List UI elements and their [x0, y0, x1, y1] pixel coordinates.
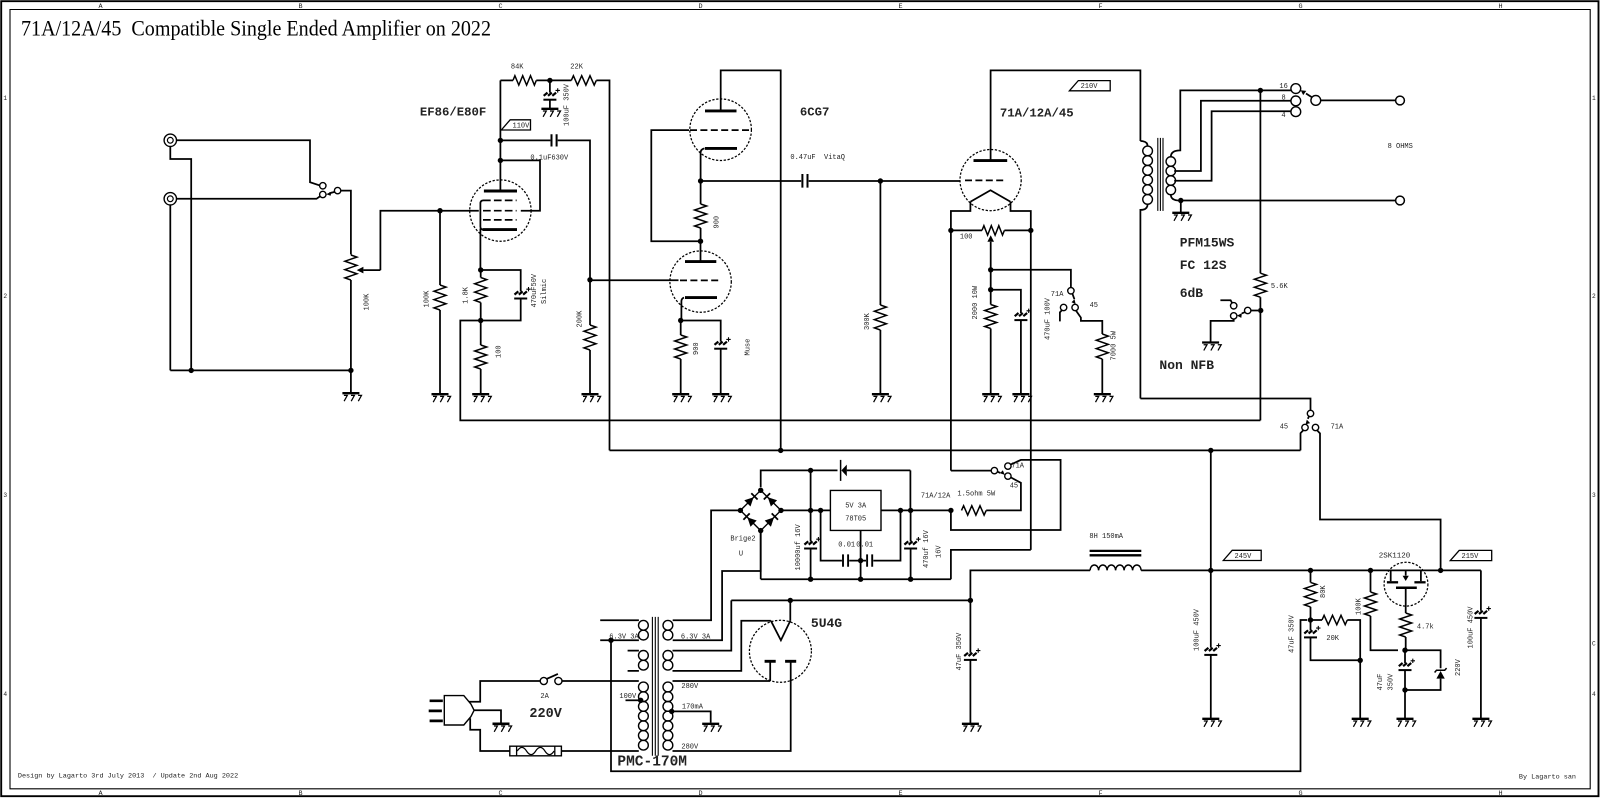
wire R17 lead	[1405, 637, 1407, 650]
T1 primary winding	[639, 682, 649, 750]
wire NFB drop	[1259, 90, 1261, 273]
svg-text:0.01: 0.01	[856, 541, 873, 549]
svg-text:H: H	[1499, 3, 1503, 11]
wire J1 tip to switch	[177, 140, 320, 185]
wire C3 top	[549, 80, 551, 92]
wire R10 leads	[990, 270, 992, 394]
wire SW5 71A to 215V	[1317, 430, 1441, 570]
wire J2 tip to switch	[177, 196, 320, 198]
V2a grid loop wire	[651, 130, 700, 241]
wire C9-C10	[849, 560, 866, 562]
node V2a cathode out	[698, 178, 703, 183]
svg-text:1.5ohm 5W: 1.5ohm 5W	[957, 490, 996, 498]
svg-text:470uF50V: 470uF50V	[531, 273, 539, 307]
node grid71A/300K	[878, 178, 883, 183]
wire C5 top	[681, 321, 721, 342]
V4 filament	[771, 621, 790, 641]
fuse F1 element	[517, 747, 554, 754]
node source divider	[1402, 648, 1407, 653]
svg-text:900: 900	[693, 342, 701, 355]
svg-text:78T05: 78T05	[845, 516, 866, 524]
wire C6 to 71A grid	[809, 180, 960, 182]
voltage flag 110V	[501, 120, 530, 130]
svg-text:350V: 350V	[1387, 673, 1395, 691]
ruler numbers right	[1592, 95, 1596, 698]
wire grid lead V2 lower	[590, 279, 679, 281]
switch SW2 common	[1068, 288, 1074, 294]
capacitor C5 Muse	[714, 337, 731, 349]
capacitor C8 10000uf 16V	[804, 537, 821, 549]
wire R7 leads	[680, 321, 682, 394]
svg-text:4: 4	[1592, 691, 1596, 698]
OPT core	[1157, 138, 1159, 211]
svg-text:280V: 280V	[681, 683, 699, 691]
wire 6.3V left top stub	[600, 619, 639, 621]
wire C8 bottom	[810, 549, 812, 580]
choke L1 8H 150mA	[1090, 565, 1141, 570]
wire C7 bottom	[1020, 320, 1022, 394]
V3 plate bar	[974, 159, 1008, 162]
svg-text:110V: 110V	[513, 122, 531, 130]
wire C15 leads	[1404, 650, 1406, 690]
wire R4-R5	[536, 79, 571, 81]
zener D2 220V	[1436, 671, 1444, 679]
wire SW3 to terminal	[1321, 99, 1396, 101]
bridge diode top-right	[768, 497, 777, 506]
capacitor C7 470uF 100V	[1014, 309, 1031, 321]
node R2/C2 junction	[478, 318, 483, 323]
ground C16	[1472, 719, 1491, 727]
svg-text:3: 3	[1592, 492, 1596, 499]
ground HV center tap	[702, 724, 721, 732]
svg-text:71A/12A: 71A/12A	[921, 492, 951, 500]
wire VR1 wiper to EF86 grid	[380, 211, 478, 270]
V2b plate bar	[685, 260, 716, 263]
wire SW4 to ground	[1211, 319, 1234, 342]
wire VR2 leads	[951, 229, 1031, 231]
svg-text:D: D	[699, 790, 703, 798]
wire SW4 common	[1251, 310, 1258, 312]
node bias mid	[988, 287, 993, 292]
capacitor C4 0.1uF630V	[552, 134, 557, 146]
wire R15 leads	[1311, 620, 1361, 660]
svg-text:210V: 210V	[1081, 83, 1099, 91]
wire 5V left stubs	[628, 651, 639, 671]
node bridge left	[738, 508, 743, 513]
svg-text:F: F	[1099, 3, 1103, 11]
selector SW3 common	[1311, 96, 1321, 106]
wire R9 leads	[879, 181, 881, 394]
svg-text:4.7k: 4.7k	[1417, 624, 1434, 632]
node reg in a	[808, 508, 813, 513]
node 245V	[1208, 568, 1213, 573]
ground C3	[541, 109, 560, 117]
SW2 arm	[1072, 294, 1074, 300]
svg-text:2SK1120: 2SK1120	[1379, 553, 1411, 561]
V4 plate1 stem	[769, 661, 771, 681]
resistor R8 900 upper cathode	[695, 204, 707, 228]
svg-text:Design by Lagarto 3rd July 201: Design by Lagarto 3rd July 2013 / Update…	[18, 773, 238, 781]
wire choke to MOSFET line	[1141, 569, 1481, 571]
OPT primary coil	[1143, 146, 1153, 204]
svg-text:100: 100	[960, 234, 973, 242]
tap circle 16	[1291, 84, 1301, 94]
SW2 open stub	[1060, 310, 1062, 321]
wire R4 left lead	[500, 79, 513, 81]
resistor R3 100	[475, 345, 487, 369]
V2a cathode bar	[705, 147, 737, 150]
node bias top	[988, 267, 993, 272]
V3 filament	[970, 190, 1010, 202]
capacitor C11 470uf 16V	[904, 537, 921, 549]
V3 filament right leg	[1011, 202, 1031, 231]
switch SW4 contact gnd	[1231, 313, 1237, 319]
svg-text:20K: 20K	[1326, 635, 1339, 643]
switch SW5 common top	[1307, 410, 1313, 416]
switch SW4 contact open	[1231, 303, 1237, 309]
AC plug prongs	[429, 701, 443, 721]
resistor R1 100K grid leak	[434, 285, 446, 310]
wire C11 bottom	[910, 549, 912, 580]
svg-text:220V: 220V	[1455, 658, 1463, 676]
SW6 arm	[998, 472, 1001, 473]
wire 5V bottom to fil	[673, 621, 771, 671]
node B+ choke junction	[1208, 448, 1213, 453]
potentiometer VR1 100K	[345, 255, 357, 280]
V2a plate bar	[705, 109, 737, 112]
svg-text:B: B	[299, 3, 303, 11]
node 100K top	[1368, 568, 1373, 573]
wire plug live	[469, 681, 540, 702]
wire 6.3V left bottom	[600, 639, 639, 641]
output terminal hot	[1396, 96, 1405, 105]
wire R8 leads	[700, 181, 702, 241]
svg-text:B: B	[299, 790, 303, 798]
resistor R16 100K	[1365, 592, 1377, 616]
wire mains live to primary	[562, 680, 639, 682]
node reg in b	[818, 508, 823, 513]
wire sec gnd stem	[1180, 201, 1182, 213]
capacitor C2 470uF50V Silmic	[514, 287, 531, 299]
svg-text:Non NFB: Non NFB	[1159, 358, 1214, 373]
wire C6 coupling	[701, 180, 802, 182]
ground R1	[432, 394, 451, 402]
capacitor C9 0.01	[843, 554, 848, 566]
wire 6.3V ref to divider	[611, 620, 1307, 771]
svg-text:100K: 100K	[423, 290, 431, 308]
wire SW6 common feed	[951, 470, 991, 472]
node V1 plate/cap	[498, 138, 503, 143]
svg-text:U: U	[739, 550, 743, 558]
resistor R5 22K	[571, 76, 596, 85]
wire bridge AC2	[673, 531, 761, 641]
wire 0.01 branch left	[821, 510, 842, 560]
bridge diode bottom-right	[765, 517, 774, 526]
svg-text:100uF 450V: 100uF 450V	[1194, 608, 1202, 651]
svg-text:Muse: Muse	[745, 339, 753, 356]
wire HV CT to gnd	[672, 711, 711, 722]
ground C12	[962, 724, 981, 732]
resistor R7 900 lower cathode	[675, 335, 687, 359]
V3 plate riser to OPT	[991, 70, 1141, 160]
svg-text:470uf 16V: 470uf 16V	[923, 529, 931, 568]
capacitor C6 0.47uF VitaQ	[802, 174, 807, 188]
wire fil right down	[1030, 230, 1032, 550]
node 470uF16 tap	[908, 508, 913, 513]
tap circle 8	[1291, 96, 1301, 106]
svg-text:H: H	[1499, 790, 1503, 798]
switch SW5 contact 45	[1302, 424, 1308, 430]
svg-text:D: D	[699, 3, 703, 11]
svg-text:E: E	[899, 3, 903, 11]
wire R12 to return	[1259, 297, 1261, 420]
wire fil return up	[951, 550, 1031, 579]
wire J2 sleeve down	[169, 205, 171, 370]
svg-text:45: 45	[1090, 302, 1098, 310]
svg-text:C: C	[1592, 641, 1596, 648]
wire R6 leads	[589, 280, 591, 394]
svg-text:470uF 100V: 470uF 100V	[1044, 297, 1052, 340]
node V1 cathode	[478, 267, 483, 272]
resistor R2 1.8K cathode	[475, 278, 487, 303]
svg-text:7000 5W: 7000 5W	[1110, 330, 1118, 360]
svg-text:100uF 350V: 100uF 350V	[564, 83, 572, 126]
T1 6.3V right winding	[663, 620, 673, 640]
svg-text:8 OHMS: 8 OHMS	[1388, 143, 1413, 151]
ruler numbers left	[3, 95, 7, 698]
V2b grid dashes	[680, 279, 721, 281]
wire fil left down	[950, 230, 952, 470]
node 80K top	[1308, 568, 1313, 573]
Q1 source stem	[1405, 588, 1407, 613]
Q1 left gate drop	[1390, 570, 1392, 581]
ruler letters bottom	[99, 790, 1503, 798]
resistor R10 2000 10W	[985, 305, 997, 329]
node DC- reg	[858, 577, 863, 582]
resistor R17 4.7k	[1400, 613, 1412, 637]
fuse F1 2A body	[510, 746, 562, 756]
tube V1 EF86 envelope	[470, 180, 531, 241]
svg-text:215V: 215V	[1462, 553, 1480, 561]
svg-text:6CG7: 6CG7	[800, 106, 830, 120]
wire J1 sleeve down	[170, 147, 191, 371]
node 215V out	[1438, 568, 1443, 573]
node input gnd junction	[189, 368, 194, 373]
node 0.01 mid	[858, 558, 863, 563]
wire R11 lead	[1101, 359, 1103, 394]
wire R14 leads	[1310, 570, 1312, 620]
ground R10	[982, 394, 1001, 402]
SW4 open stub	[1220, 300, 1232, 303]
svg-text:47uF 350V: 47uF 350V	[1288, 614, 1296, 653]
svg-text:PMC-170M: PMC-170M	[617, 755, 687, 771]
svg-text:8: 8	[1282, 94, 1286, 102]
OPT primary bottom exit	[1140, 204, 1147, 398]
svg-text:5V 3A: 5V 3A	[845, 503, 867, 511]
svg-text:45: 45	[1280, 423, 1288, 431]
voltage flag 215V	[1450, 550, 1491, 560]
wire C12 stem	[969, 600, 971, 652]
V1 cathode stem	[479, 229, 481, 271]
ground R9	[872, 394, 891, 402]
ground C7	[1012, 394, 1031, 402]
wire R5 to B+ riser	[596, 80, 609, 450]
wire SW6 71A direct	[951, 460, 1061, 530]
switch SW1 contact B	[320, 191, 326, 197]
node divider bottom	[1358, 658, 1363, 663]
V3 filament left leg	[951, 202, 971, 231]
tube V2a 6CG7 upper envelope	[690, 99, 752, 161]
wire C4 to 6CG7 grid net	[558, 140, 590, 279]
node bridge top	[758, 488, 763, 493]
capacitor C13 100uF 450V	[1204, 643, 1221, 655]
T1 5V right winding	[663, 651, 673, 671]
wire C13 bottom	[1210, 655, 1212, 718]
switch SW6 contact 45	[1005, 473, 1011, 479]
wire C2 bottom	[481, 299, 521, 321]
node reg out	[898, 508, 903, 513]
node fil right	[1028, 228, 1033, 233]
V2b cathode bar	[685, 296, 717, 299]
V1 g3-cathode bracket	[480, 200, 483, 229]
svg-text:Silmic: Silmic	[541, 279, 549, 304]
wire C16 stem	[1480, 570, 1482, 610]
capacitor C3 100uF 350V	[543, 88, 560, 100]
svg-text:1.8K: 1.8K	[463, 286, 471, 304]
capacitor C16 100uF 450V	[1474, 606, 1491, 618]
wire SW1 to volume pot	[341, 191, 351, 255]
V2a cathode stem	[701, 148, 705, 181]
wire 100V tap stub	[626, 699, 641, 701]
wire C3 bottom	[549, 100, 551, 109]
svg-text:16V: 16V	[935, 545, 943, 558]
switch SW4 common	[1245, 307, 1251, 313]
ground R3	[472, 394, 491, 402]
svg-text:200K: 200K	[576, 310, 584, 328]
regulator U1 78T05 box	[830, 490, 881, 530]
wire 10000uF stem	[810, 470, 812, 541]
wire rect DC+ line	[761, 470, 838, 487]
resistor R11 7000 5W	[1096, 334, 1108, 359]
wire C16 bottom	[1480, 618, 1482, 718]
capacitor C14 47uF 350V	[1304, 626, 1321, 638]
wire divider gnd	[1359, 660, 1361, 718]
SW3 arm to 16	[1306, 94, 1312, 98]
svg-text:100uF 450V: 100uF 450V	[1467, 606, 1475, 649]
V4 filament stem	[789, 600, 791, 620]
wire R1 leads	[439, 211, 441, 394]
svg-text:280V: 280V	[681, 743, 699, 751]
wire R2 leads	[480, 270, 482, 321]
ground input bus	[342, 393, 361, 401]
svg-text:100K: 100K	[363, 293, 371, 311]
wire C5 bottom	[720, 349, 722, 394]
wire plug neutral	[470, 718, 510, 751]
svg-text:4: 4	[1281, 112, 1285, 120]
node V2b cathode	[678, 318, 683, 323]
wire C14 leads	[1311, 620, 1361, 660]
wire bridge AC1	[673, 510, 741, 620]
wire reg input	[781, 509, 830, 511]
resistor R13 1.5ohm 5W	[962, 506, 987, 515]
wire NFB return line	[460, 321, 1260, 421]
V4 plate2 bar	[785, 660, 796, 663]
svg-text:6dB: 6dB	[1180, 286, 1204, 301]
node bridge right	[778, 508, 783, 513]
T1 HV winding	[663, 682, 673, 750]
svg-text:1: 1	[1592, 95, 1596, 102]
bridge diode top-left	[744, 497, 753, 506]
svg-text:220V: 220V	[529, 707, 562, 722]
V1 g2 tie loop	[500, 160, 540, 210]
svg-text:300K: 300K	[864, 312, 872, 330]
svg-text:100: 100	[496, 345, 504, 358]
ground R7	[672, 394, 691, 402]
capacitor C12 47uF 350V	[964, 648, 981, 660]
Q1 left bar	[1387, 581, 1398, 583]
wire D1 out to reg	[909, 470, 911, 510]
V1 plate riser	[499, 80, 501, 191]
wire pot gnd stem	[350, 370, 352, 392]
svg-text:71A: 71A	[1051, 291, 1064, 299]
switch SW2 contact 45	[1072, 304, 1078, 310]
SW7 arm	[547, 674, 558, 679]
node bridge bottom	[758, 528, 763, 533]
svg-text:3: 3	[3, 492, 7, 499]
svg-text:FC 12S: FC 12S	[1180, 258, 1227, 273]
node 100V tap	[638, 698, 643, 703]
svg-text:PFM15WS: PFM15WS	[1180, 235, 1235, 250]
svg-text:G: G	[1299, 3, 1303, 11]
svg-text:71A/12A/45: 71A/12A/45	[1000, 106, 1074, 120]
resistor R14 80K	[1305, 582, 1317, 607]
svg-text:Brige2: Brige2	[730, 535, 755, 543]
resistor R4 84K plate load	[513, 76, 536, 85]
wire bridge DC- stub	[760, 531, 762, 580]
svg-text:170mA: 170mA	[682, 703, 704, 711]
V1 grid g3 dashes	[483, 199, 517, 201]
node DC- 10000uF	[808, 577, 813, 582]
svg-text:900: 900	[713, 216, 721, 229]
node DC+ cap tap	[808, 468, 813, 473]
ground NFB switch	[1202, 343, 1221, 351]
svg-text:84K: 84K	[511, 64, 524, 72]
svg-text:EF86/E80F: EF86/E80F	[420, 106, 486, 120]
wire HV top to plate	[673, 680, 771, 682]
node B+ 6CG7 riser	[778, 448, 783, 453]
transistor Q1 2SK1120 envelope	[1384, 562, 1428, 606]
wire C4 coupling	[500, 139, 550, 141]
output terminal gnd	[1396, 196, 1405, 205]
wire reg output	[881, 509, 951, 511]
wire B+ rail 245V	[610, 449, 1301, 451]
ground mains earth	[493, 724, 512, 732]
wire fuse to primary	[561, 750, 638, 752]
choke L1 core	[1090, 550, 1142, 552]
svg-text:C: C	[499, 790, 503, 798]
ground R6	[582, 394, 601, 402]
OPT sec 8 tap	[1174, 101, 1291, 171]
svg-text:6.3V 3A: 6.3V 3A	[681, 633, 711, 641]
switch SW1 common C	[334, 187, 340, 193]
wire SW5 45 to rail	[1301, 430, 1304, 450]
svg-text:F: F	[1099, 790, 1103, 798]
OPT sec 4 tap	[1174, 111, 1291, 181]
Q1 arrow	[1405, 570, 1407, 575]
tube V4 5U4G envelope	[749, 620, 811, 682]
switch SW2 contact 71A-open	[1060, 304, 1066, 310]
wire reg gnd pin	[860, 530, 862, 579]
